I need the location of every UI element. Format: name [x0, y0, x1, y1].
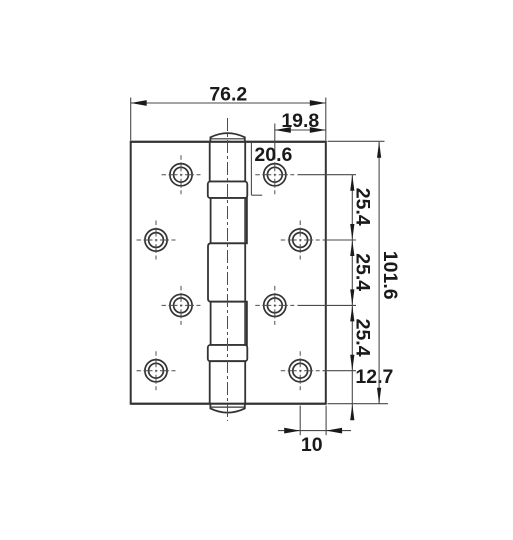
hole H8 [281, 351, 320, 390]
svg-text:25.4: 25.4 [351, 253, 373, 291]
dimension 10 extension line left [299, 406, 301, 436]
knuckle segment 5 [210, 361, 246, 404]
dimension 101.6 line [377, 142, 381, 404]
knuckle segment 4 [211, 302, 247, 345]
svg-text:101.6: 101.6 [379, 251, 401, 300]
svg-text:20.6: 20.6 [254, 144, 292, 166]
dimension 20.6 line [251, 143, 262, 195]
hole H4 [137, 351, 176, 390]
knuckle segment 2 [211, 198, 247, 243]
dimension 10 line [278, 428, 351, 434]
svg-text:76.2: 76.2 [209, 83, 247, 105]
right chain extension line row 2 [323, 239, 357, 241]
hole H5 [255, 155, 294, 194]
svg-text:25.4: 25.4 [351, 188, 373, 226]
right chain extension line row 3 [298, 304, 357, 306]
svg-text:10: 10 [301, 434, 323, 456]
plate top edge over barrel [131, 141, 326, 143]
chain dimension line [350, 175, 354, 421]
bearing ring 1 [208, 182, 248, 199]
right chain extension line row 1 [298, 174, 357, 176]
hole H7 [255, 286, 294, 325]
dimension 76.2 line [131, 100, 326, 106]
hole H3 [162, 286, 201, 325]
dimension 76.2 extension line right / shared right edge extension [325, 98, 327, 141]
hole H1 [162, 155, 201, 194]
hole H6 [281, 221, 320, 260]
svg-text:12.7: 12.7 [355, 366, 393, 388]
bearing ring 2 [208, 345, 248, 361]
right chain extension line row 4 [323, 370, 357, 372]
knuckle bottom cap [210, 403, 244, 412]
knuckle top cap [210, 133, 244, 142]
hinge leaf plate outline [131, 142, 326, 404]
dimension 76.2 extension line left [130, 98, 132, 141]
overall height extension line bottom [328, 403, 389, 405]
overall height extension line top [328, 140, 385, 142]
hole H2 [137, 221, 176, 260]
svg-text:19.8: 19.8 [281, 110, 319, 132]
knuckle segment 3 [208, 243, 245, 301]
plate bottom edge over barrel [131, 403, 326, 405]
knuckle segment 1 [210, 142, 246, 182]
dimension 19.8 extension line left (hole column) [274, 124, 276, 159]
dimension 10 extension line right [325, 406, 327, 436]
dimension 19.8 line [275, 127, 326, 133]
knuckle centerline [227, 118, 229, 421]
svg-text:25.4: 25.4 [351, 319, 373, 357]
